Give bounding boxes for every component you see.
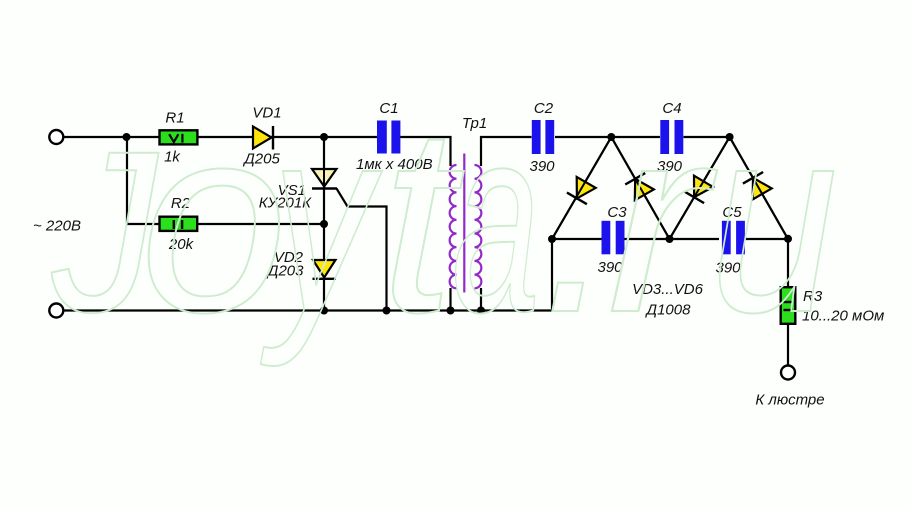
svg-text:y: y [260, 72, 385, 369]
svg-text:o: o [140, 72, 287, 368]
svg-text:К люстре: К люстре [755, 392, 824, 409]
svg-text:.: . [542, 72, 616, 368]
svg-text:u: u [710, 72, 838, 368]
svg-text:a: a [452, 72, 540, 368]
svg-text:r: r [607, 72, 720, 368]
